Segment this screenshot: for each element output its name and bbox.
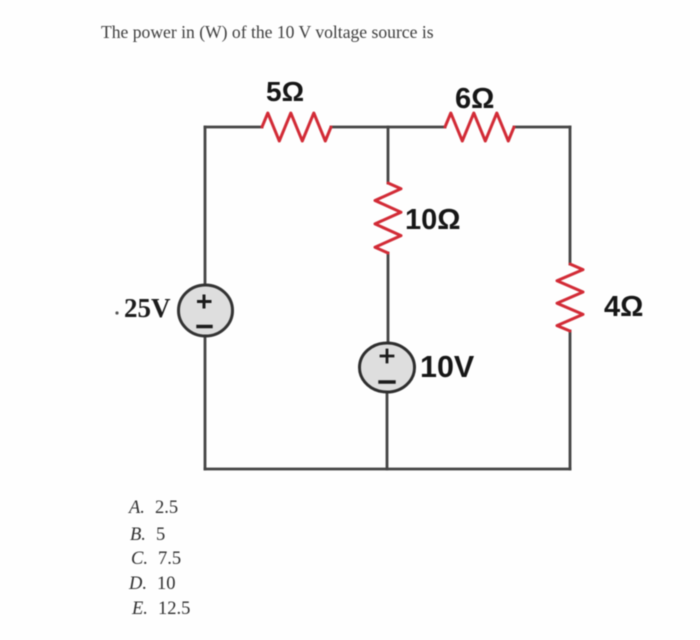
resistor 6Ω zigzag xyxy=(445,113,514,141)
label 25V xyxy=(115,293,171,323)
answer C xyxy=(131,549,181,570)
svg-text:10Ω: 10Ω xyxy=(405,204,461,236)
title xyxy=(101,22,434,43)
label 5Ω xyxy=(266,76,304,107)
resistor 10Ω zigzag xyxy=(375,183,401,253)
svg-text:4Ω: 4Ω xyxy=(604,291,643,323)
answer B xyxy=(130,525,165,546)
resistor 5Ω zigzag xyxy=(262,113,331,141)
answer D xyxy=(129,574,176,595)
svg-text:5Ω: 5Ω xyxy=(266,76,304,107)
wire left vertical lower (25V bottom lead) xyxy=(204,337,207,469)
svg-text:10V: 10V xyxy=(420,350,475,384)
wire right vertical lower (4Ω to bottom) xyxy=(569,331,572,469)
wire left vertical upper (25V top lead) xyxy=(204,127,207,284)
label 4Ω xyxy=(604,291,643,323)
voltage source 25V circle xyxy=(179,285,233,336)
label 6Ω xyxy=(455,83,494,115)
wire bottom horizontal xyxy=(205,468,570,471)
wire top segment left node to 5Ω xyxy=(205,126,262,129)
wire top segment 6Ω to top-right corner xyxy=(514,126,570,129)
resistor 4Ω zigzag xyxy=(557,264,583,331)
svg-text:6Ω: 6Ω xyxy=(455,83,494,115)
wire top segment 5Ω to node B xyxy=(331,126,445,129)
wire right vertical upper (corner to 4Ω) xyxy=(569,127,572,264)
answer A xyxy=(129,498,178,519)
label 10V xyxy=(420,350,475,384)
voltage source 10V circle xyxy=(360,343,415,392)
label 10Ω xyxy=(405,204,461,236)
wire middle vertical upper (node B to 10Ω) xyxy=(387,127,390,183)
answer E xyxy=(132,599,190,620)
wire middle vertical lower (10V to bottom) xyxy=(386,392,389,469)
svg-text:25V: 25V xyxy=(124,293,171,323)
wire middle vertical mid (10Ω to 10V) xyxy=(387,253,390,342)
